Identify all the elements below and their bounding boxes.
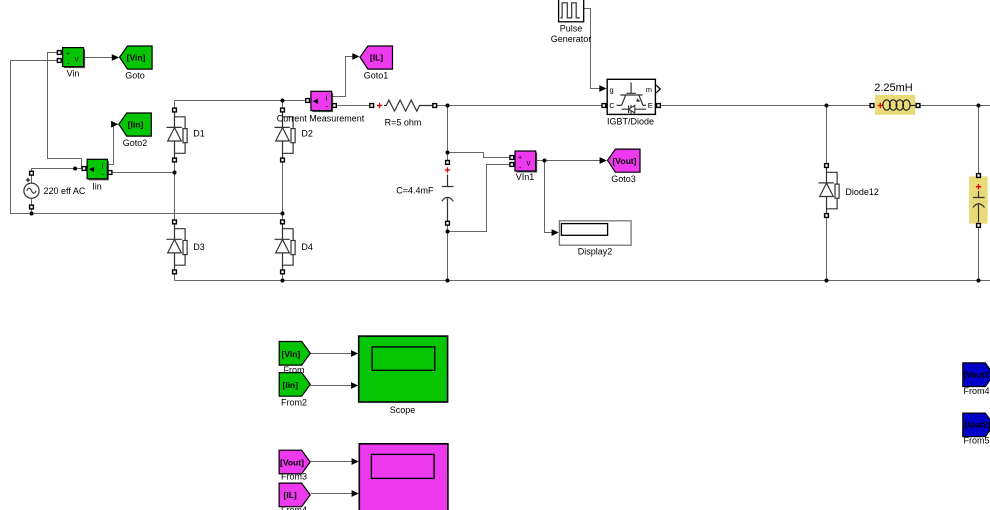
- svg-text:v: v: [527, 159, 531, 168]
- svg-text:Vin: Vin: [67, 69, 80, 79]
- svg-text:-: -: [102, 170, 105, 179]
- svg-text:[IL]: [IL]: [284, 490, 297, 500]
- svg-text:E: E: [648, 101, 653, 110]
- svg-text:IGBT/Diode: IGBT/Diode: [607, 117, 654, 127]
- svg-text:Goto3: Goto3: [611, 174, 636, 184]
- svg-text:D4: D4: [301, 242, 313, 252]
- svg-text:-: -: [67, 59, 70, 68]
- svg-text:[Vout]: [Vout]: [613, 156, 637, 166]
- svg-text:Scope: Scope: [390, 405, 416, 415]
- svg-text:+: +: [66, 51, 70, 58]
- svg-text:From3: From3: [281, 472, 307, 482]
- svg-text:Current Measurement: Current Measurement: [277, 114, 365, 124]
- svg-text:m: m: [646, 85, 652, 94]
- svg-text:Generator: Generator: [551, 34, 592, 44]
- svg-text:VIn1: VIn1: [516, 172, 535, 182]
- svg-text:-: -: [519, 163, 522, 172]
- svg-text:R=5 ohm: R=5 ohm: [385, 118, 422, 128]
- svg-text:From4: From4: [281, 505, 307, 510]
- svg-text:-: -: [326, 102, 329, 111]
- svg-text:[IL]: [IL]: [370, 52, 383, 62]
- svg-text:[Iout2]: [Iout2]: [965, 420, 990, 430]
- svg-text:Diode12: Diode12: [845, 187, 879, 197]
- svg-text:C: C: [609, 101, 615, 110]
- svg-text:From5: From5: [963, 436, 989, 446]
- svg-text:2.25mH: 2.25mH: [874, 82, 913, 94]
- svg-text:Display2: Display2: [578, 247, 613, 257]
- svg-text:v: v: [75, 55, 79, 64]
- svg-text:[Iin]: [Iin]: [128, 120, 144, 130]
- svg-text:Iin: Iin: [92, 182, 102, 192]
- svg-text:[Vout2]: [Vout2]: [964, 370, 990, 380]
- svg-text:D1: D1: [193, 128, 205, 138]
- svg-text:220 eff AC: 220 eff AC: [44, 186, 86, 196]
- svg-text:[Vin]: [Vin]: [282, 349, 301, 359]
- svg-text:Goto: Goto: [125, 71, 145, 81]
- svg-text:D3: D3: [193, 242, 205, 252]
- svg-text:Pulse: Pulse: [560, 24, 583, 34]
- svg-text:+: +: [518, 155, 522, 162]
- svg-text:C=4.4mF: C=4.4mF: [396, 185, 434, 195]
- svg-text:g: g: [610, 85, 614, 94]
- svg-text:[Vout]: [Vout]: [280, 458, 304, 468]
- svg-text:[Vin]: [Vin]: [127, 53, 146, 63]
- svg-text:D2: D2: [301, 128, 313, 138]
- svg-text:From2: From2: [281, 398, 307, 408]
- svg-text:Goto2: Goto2: [123, 138, 148, 148]
- svg-text:From4: From4: [963, 386, 989, 396]
- svg-text:[Iin]: [Iin]: [283, 380, 299, 390]
- svg-text:Goto1: Goto1: [364, 71, 389, 81]
